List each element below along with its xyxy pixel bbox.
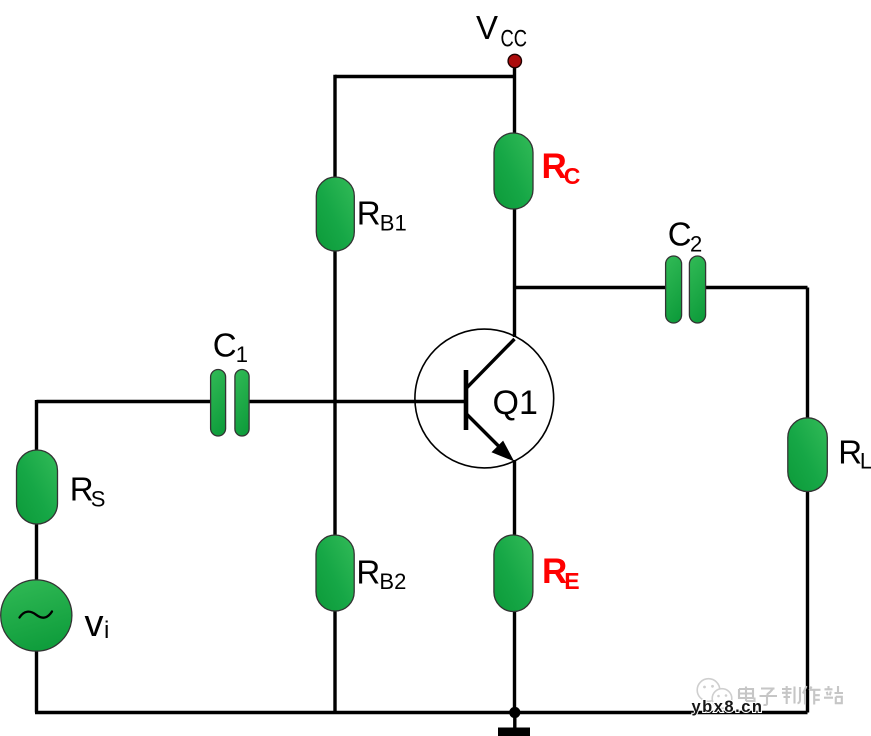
svg-text:B1: B1: [380, 210, 407, 235]
resistor RC body: [494, 133, 533, 209]
resistor RS body: [17, 450, 58, 524]
svg-text:C: C: [213, 327, 237, 364]
svg-text:CC: CC: [501, 26, 528, 53]
wire: source branch vertical: [35, 400, 38, 713]
wire: base wire from source branch to C1: [37, 400, 212, 403]
wire: VCC stem and collector vertical: [513, 61, 516, 337]
ground junction dot: [509, 707, 520, 718]
glyph zhi: [782, 686, 800, 704]
svg-text:1: 1: [236, 342, 248, 367]
svg-text:C: C: [668, 215, 692, 252]
resistor RB2 body: [316, 535, 354, 611]
svg-text:C: C: [564, 163, 581, 189]
svg-text:L: L: [860, 448, 871, 473]
svg-text:v: v: [85, 603, 104, 645]
svg-text:V: V: [476, 9, 498, 46]
svg-text:R: R: [357, 195, 381, 232]
svg-text:B2: B2: [379, 569, 406, 594]
source vi circle: [1, 580, 72, 651]
wire: emitter vertical: [513, 460, 516, 713]
wire: load branch vertical: [806, 288, 809, 713]
transistor Q1 emitter arrowhead: [494, 443, 512, 459]
capacitor C1 left plate: [211, 370, 226, 437]
glyph zi: [760, 689, 778, 705]
capacitor C1 right plate: [235, 370, 249, 437]
capacitor C2 left plate: [666, 256, 682, 323]
watermark chinese text 电子制作站 (simplified strokes): [739, 686, 843, 705]
glyph zuo: [803, 686, 821, 705]
svg-text:i: i: [104, 617, 109, 644]
svg-text:ybx8.cn: ybx8.cn: [692, 698, 764, 716]
ground bar: [498, 728, 530, 736]
svg-text:S: S: [91, 486, 106, 511]
wire: top rail from RB1 branch to VCC: [335, 75, 515, 78]
resistor RB1 body: [316, 177, 354, 251]
source vi sine tilde: [20, 612, 53, 618]
wire: collector output to C2: [515, 286, 667, 289]
wire: bottom ground rail: [35, 711, 808, 714]
ground stub: [513, 713, 516, 728]
glyph zhan: [824, 686, 843, 703]
wire: left bias branch vertical (RB1/RB2): [333, 75, 336, 713]
capacitor C2 right plate: [689, 256, 705, 323]
transistor Q1 collector stroke: [466, 339, 515, 389]
svg-text:R: R: [838, 434, 862, 471]
svg-text:Q1: Q1: [493, 384, 538, 422]
svg-text:R: R: [356, 554, 380, 591]
svg-text:E: E: [564, 568, 579, 594]
svg-text:2: 2: [690, 232, 702, 257]
transistor Q1 emitter stroke: [466, 414, 500, 448]
wire: C2 to load branch: [705, 286, 808, 289]
resistor RE body: [494, 535, 533, 612]
watermark logo bubbles: [697, 679, 732, 709]
transistor Q1 circle: [415, 329, 554, 468]
resistor RL body: [788, 418, 828, 492]
glyph dian: [739, 687, 755, 702]
transistor Q1 base bar: [464, 370, 469, 430]
wire: base wire from C1 to Q1 base: [249, 400, 465, 403]
VCC terminal dot: [508, 54, 521, 67]
